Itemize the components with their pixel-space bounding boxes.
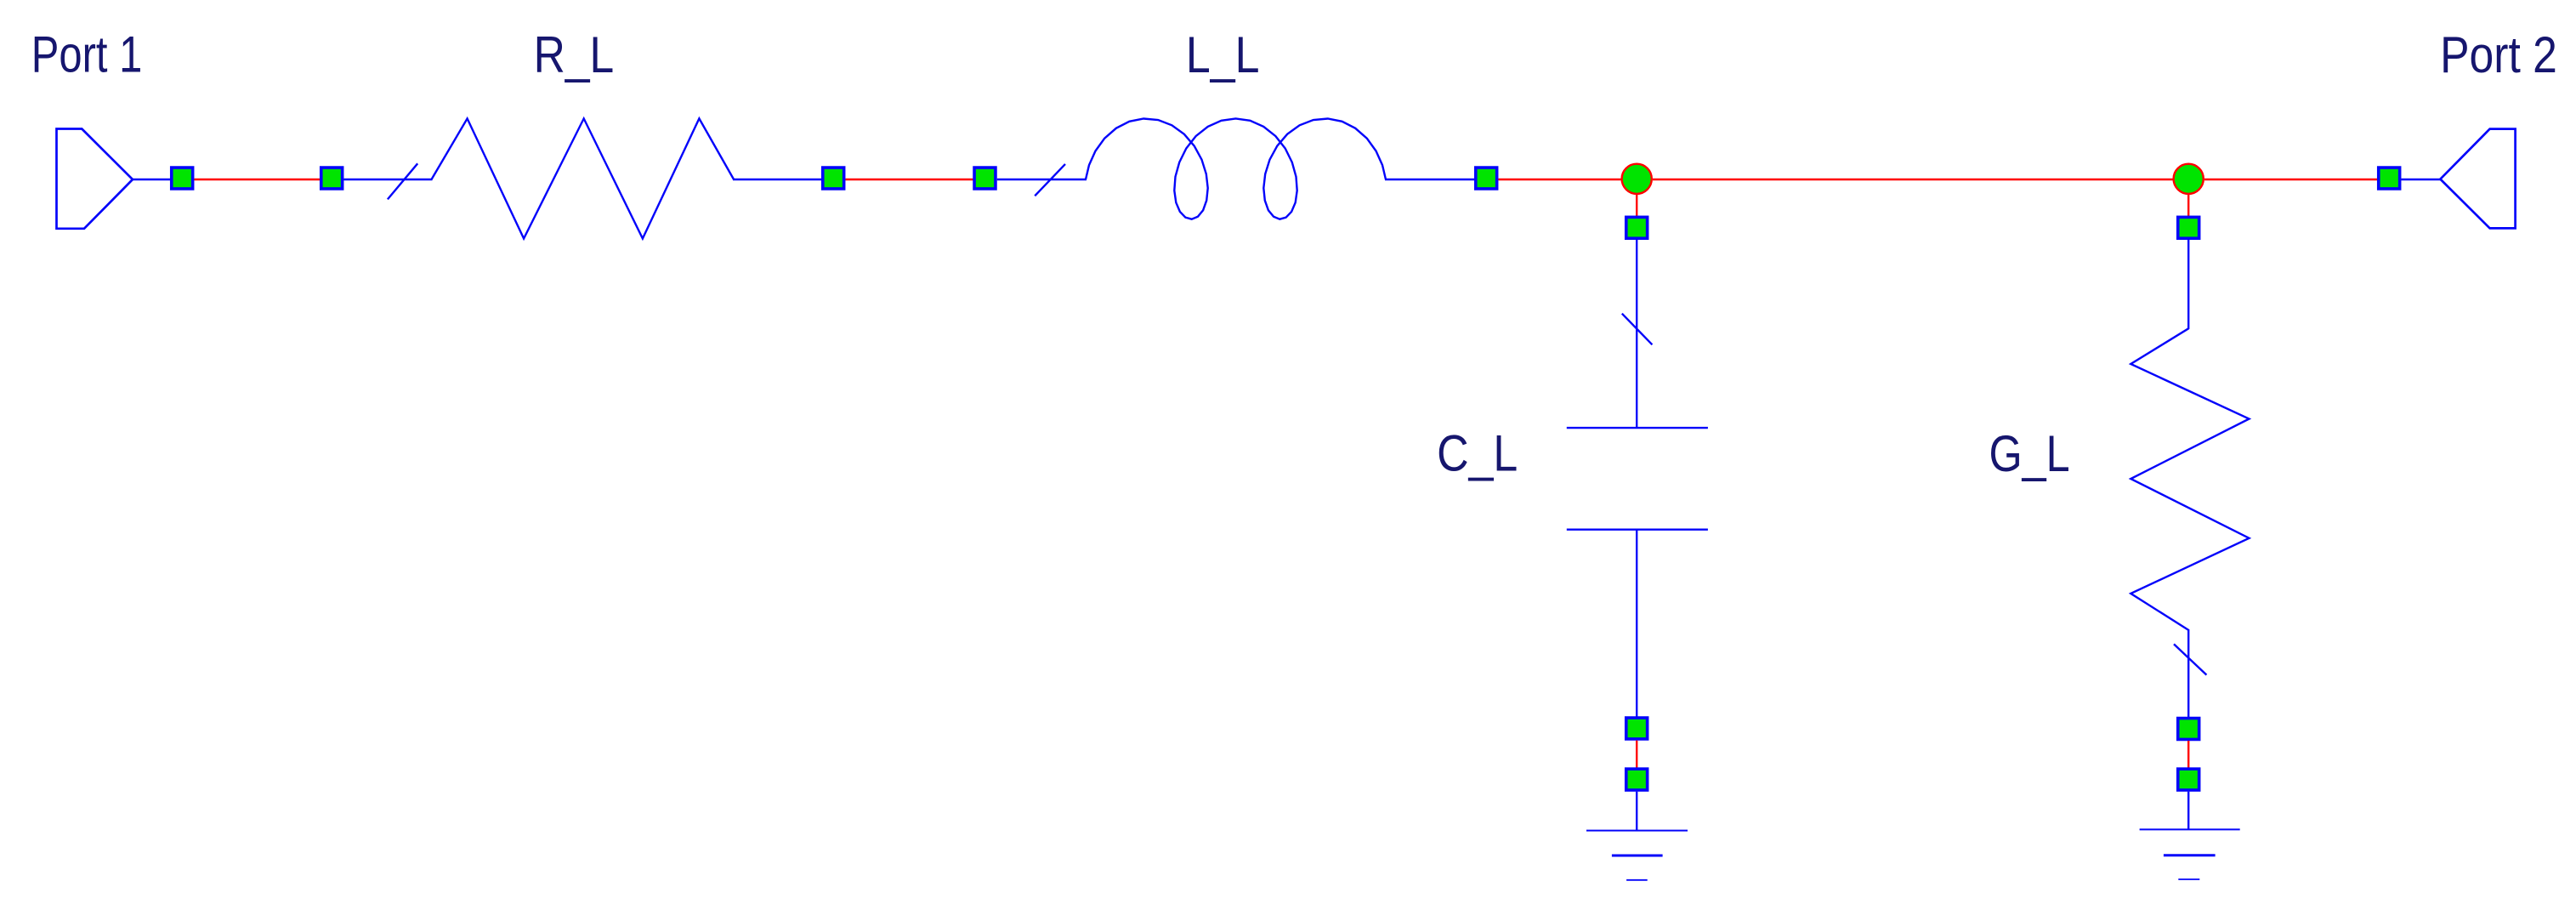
tick mark on L_L lead [1035,164,1065,196]
wire net node1-node2 [1653,179,2173,180]
port P1 symbol [57,129,133,229]
resistor G_L [2131,328,2249,630]
wire R_L lead left [344,179,433,180]
wire net P1-R_L [195,179,321,180]
wire net C_L-gnd [1636,741,1637,769]
pin G_L-1 [2178,217,2199,238]
pin P1-1 [172,168,193,189]
wire gnd2 lead [2187,792,2189,830]
node N1 junction [1622,164,1652,194]
wire net node2-P2 [2204,179,2378,180]
ground GND2 [2140,828,2240,830]
wire node2 down [2187,194,2189,218]
pin L_L-2 [1476,168,1497,189]
wire node1 down [1636,194,1637,217]
capacitor C_L plates [1567,427,1708,429]
wire R_L lead right [733,179,822,180]
pin L_L-1 [974,168,996,189]
wire P2 to pin [2402,179,2442,180]
resistor R_L [432,118,735,238]
svg-text:L_L: L_L [1186,26,1260,83]
node N2 junction [2174,164,2204,194]
tick mark on C_L lead [1622,314,1653,345]
inductor L_L coil [1086,118,1386,219]
wire L_L lead left [997,179,1087,180]
svg-text:G_L: G_L [1989,424,2070,482]
pin P2-1 [2379,168,2400,189]
pin R_L-1 [321,168,343,189]
svg-text:R_L: R_L [534,26,615,83]
svg-text:C_L: C_L [1437,424,1518,482]
pin gnd2 pin [2178,769,2199,790]
pin C_L-1 [1626,217,1648,238]
svg-text:Port 1: Port 1 [31,26,143,83]
wire net R_L-L_L [846,179,974,180]
ground GND1 [1586,830,1688,832]
pin R_L-2 [823,168,844,189]
wire G_L lead top [2187,240,2189,329]
tick mark on G_L lead [2174,644,2206,674]
wire L_L lead right [1385,179,1475,180]
tick mark on R_L lead [388,163,417,199]
wire C_L lead top [1636,240,1637,429]
pin C_L-2 [1626,718,1648,739]
wire C_L lead bottom [1636,530,1637,718]
wire G_L lead bottom [2187,629,2189,719]
svg-text:Port 2: Port 2 [2440,26,2557,83]
port P2 symbol [2440,129,2515,229]
wire net L_L-node1 [1499,179,1622,180]
wire P1 to pin [133,179,171,180]
wire gnd1 lead [1636,792,1637,831]
pin gnd1 pin [1626,769,1648,790]
wire net G_L-gnd [2187,741,2189,769]
pin G_L-2 [2178,719,2199,740]
